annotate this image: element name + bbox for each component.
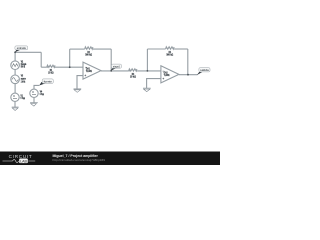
resistor R3: [129, 69, 137, 71]
source V1 plus-minus symbol: [13, 95, 17, 99]
svg-text:TL081: TL081: [86, 70, 92, 73]
wire corner down to R1 row: [40, 52, 42, 67]
ground under op-amp OA1: [74, 88, 82, 90]
svg-text:http://circuitlab.com/c/amzwj7: http://circuitlab.com/c/amzwj748hp939: [53, 158, 106, 162]
source V2 circle: [11, 61, 20, 70]
node dot output stage 1: [110, 70, 112, 72]
wire feedback top left segment stage 2: [147, 48, 165, 50]
svg-text:1 kHz: 1 kHz: [21, 81, 26, 84]
wire feedback left vertical stage 1: [69, 49, 71, 67]
wire op-amp OA1 output: [101, 70, 129, 72]
source V4 plus-minus symbol: [32, 91, 36, 95]
wire V1 to ground: [14, 102, 16, 108]
wire feedback top right segment stage 1: [93, 48, 111, 50]
wire top horizontal from input junction to corner: [15, 51, 41, 53]
wire feedback top right segment stage 2: [174, 48, 188, 50]
source V1 circle: [11, 93, 19, 101]
svg-text:9 Vpp: 9 Vpp: [40, 93, 45, 96]
ground under left chain: [12, 106, 19, 108]
wire input junction down to source V2: [14, 52, 16, 61]
node dot feedback tap stage 2: [147, 70, 149, 72]
flag node input: [15, 46, 28, 52]
component labels: [48, 50, 173, 79]
wire op-amp OA2 non-inverting input to ground: [147, 79, 161, 89]
wire R1 to op-amp OA1 inverting input: [55, 66, 83, 68]
wire V2 to V3: [14, 70, 16, 76]
flag node out: [197, 68, 210, 75]
svg-text:390 kΩ: 390 kΩ: [166, 52, 173, 56]
ground under op-amp OA2: [143, 87, 151, 89]
source V2 sine symbol: [12, 64, 18, 67]
footer black bar: [0, 152, 220, 166]
svg-text:5 Vpp: 5 Vpp: [21, 97, 26, 100]
svg-text:TL081: TL081: [164, 74, 170, 77]
wire op-amp OA2 output to out node: [179, 74, 198, 76]
flag node at source V4: [39, 79, 53, 86]
svg-text:CIRCUIT: CIRCUIT: [9, 154, 33, 159]
wire R3 to op-amp OA2 inverting input: [137, 70, 161, 72]
wire feedback top left segment stage 1: [70, 48, 85, 50]
wire feedback left vertical stage 2: [146, 49, 148, 71]
svg-text:LAB: LAB: [20, 159, 27, 163]
ground under V4: [30, 102, 38, 104]
wire into R1: [41, 66, 47, 68]
svg-text:etapa1: etapa1: [113, 65, 121, 68]
svg-text:390 kΩ: 390 kΩ: [85, 52, 92, 56]
svg-text:entrada: entrada: [17, 47, 27, 50]
wire V4 to ground: [33, 98, 35, 103]
resistor R2: [85, 47, 93, 49]
op-amp OA1 input polarity marks: [84, 67, 86, 76]
svg-text:20 kΩ: 20 kΩ: [48, 71, 53, 75]
junction node dots: [14, 51, 189, 75]
op-amp OA1 triangle: [83, 62, 101, 79]
wire op-amp OA1 non-inverting input to ground: [77, 76, 83, 89]
svg-text:20 kΩ: 20 kΩ: [130, 74, 136, 78]
wire feedback right vertical stage 2: [187, 49, 189, 75]
node dot output stage 2: [187, 74, 189, 76]
source V3 sine symbol: [12, 78, 18, 82]
svg-text:500 Hz: 500 Hz: [21, 65, 26, 68]
node dot feedback tap stage 1: [69, 66, 71, 68]
svg-text:fuente: fuente: [44, 81, 53, 84]
wire V3 to V1: [14, 84, 16, 94]
svg-text:salida: salida: [200, 69, 209, 72]
flag node stage 1 output: [111, 64, 122, 71]
op-amp OA2 triangle: [161, 66, 179, 83]
resistor R4: [166, 47, 175, 49]
source V3 circle: [11, 75, 20, 84]
node dot input junction: [14, 51, 16, 53]
op-amp OA2 input polarity marks: [162, 71, 164, 79]
source V4 circle: [30, 89, 38, 97]
resistor R1: [47, 65, 55, 67]
CircuitLab logo wordmark: [3, 154, 36, 163]
wire flag to source V4: [34, 85, 39, 89]
wire feedback right vertical stage 1: [110, 49, 112, 71]
